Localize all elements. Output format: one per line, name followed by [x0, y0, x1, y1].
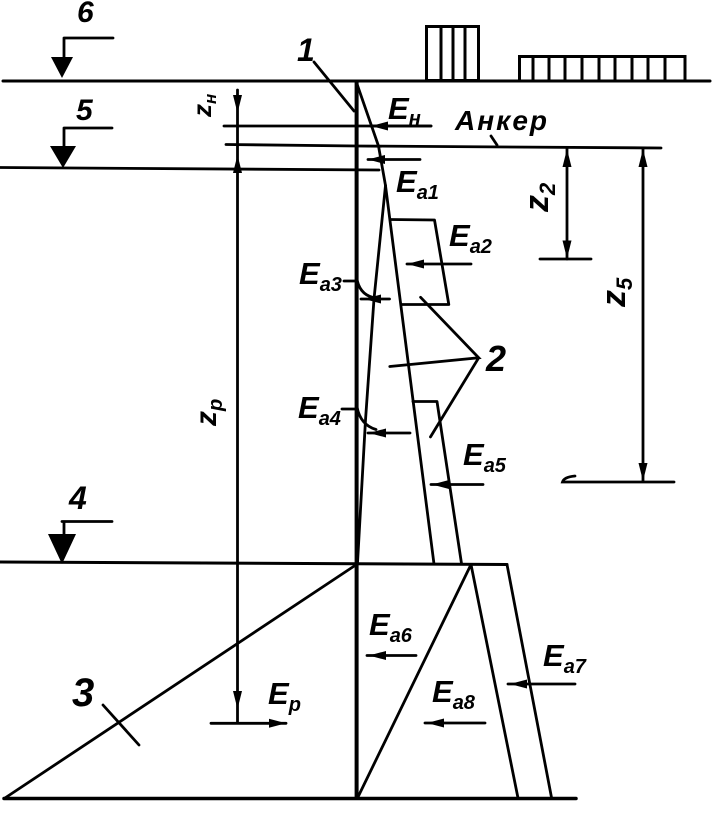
groundwater line (level 5): [0, 168, 379, 171]
svg-text:Eа2: Eа2: [449, 218, 492, 258]
dimension line z_5: [642, 148, 645, 482]
E_n arrow line: [371, 125, 431, 128]
svg-text:z2: z2: [518, 182, 560, 213]
leader tick for label 3: [103, 705, 139, 745]
svg-text:Eа6: Eа6: [369, 607, 413, 647]
pressure boundary L3 (apex down-right): [386, 186, 435, 565]
svg-text:1: 1: [297, 32, 315, 68]
E_a5 step polygon: [413, 402, 462, 564]
svg-text:zр: zр: [190, 399, 227, 427]
svg-text:zн: zн: [187, 94, 220, 118]
leader for anker: [491, 136, 497, 145]
svg-text:4: 4: [68, 480, 87, 516]
leaders for label 2: [390, 297, 479, 437]
ground surface line (level 6): [3, 80, 710, 83]
E_a7 band right edge: [507, 565, 552, 798]
anchor rod line: [226, 145, 661, 149]
svg-text:2: 2: [485, 338, 506, 379]
dim arrowheads x=237.5: [233, 95, 242, 113]
pressure boundary L2 (apex down-left to wall): [358, 186, 386, 564]
svg-text:Eа3: Eа3: [299, 256, 342, 296]
arrowheads horizontal left-pointing: [371, 122, 388, 131]
pressure boundary L1 (wall top to apex): [357, 84, 386, 186]
level symbol 6: [64, 38, 113, 59]
E_a5 arrow line: [431, 483, 483, 486]
E_a8 arrow line: [425, 722, 485, 725]
z_5 bottom tick with hook: [563, 476, 675, 482]
wall (sheet pile): [355, 82, 359, 798]
svg-text:Eа1: Eа1: [396, 164, 439, 204]
building block left (hatched): [427, 27, 479, 81]
svg-text:Eа8: Eа8: [432, 674, 476, 714]
svg-text:Eа5: Eа5: [463, 437, 507, 477]
line A (z_n extension / E_n arrow line): [224, 125, 431, 128]
E_a8 hypotenuse: [358, 565, 472, 799]
E_a4 leader arc: [342, 407, 410, 433]
E_a7 band left edge: [471, 565, 518, 799]
E_a3 leader arc: [344, 277, 390, 299]
E_a6 arrow line: [367, 654, 416, 657]
z_2 bottom tick: [540, 258, 591, 261]
dimension line z_2: [566, 148, 569, 259]
svg-text:6: 6: [77, 0, 94, 29]
svg-text:Eа4: Eа4: [298, 390, 341, 430]
dimension line z_n / z_p vertical: [236, 90, 239, 722]
level triangle 5: [50, 146, 76, 168]
level symbol 5: [64, 128, 112, 147]
svg-text:Анкер: Анкер: [454, 105, 549, 136]
passive pressure diagonal (3): [5, 565, 357, 799]
leader for label 1: [314, 62, 354, 111]
excavation line (level 4): [0, 562, 507, 565]
E_p arrow line: [211, 722, 286, 725]
dim arrowheads z_5: [639, 149, 648, 167]
level triangle 6: [51, 57, 73, 78]
dim arrowheads z_2: [563, 149, 572, 167]
svg-text:5: 5: [76, 94, 94, 127]
level triangle 4: [48, 534, 76, 564]
svg-text:Eн: Eн: [388, 91, 421, 130]
level symbol 4: [62, 522, 112, 537]
E_a2 arrow line: [407, 263, 471, 266]
E_a1 arrow line: [368, 158, 420, 161]
bottom line of wall: [4, 797, 576, 801]
svg-text:Eа7: Eа7: [543, 638, 587, 678]
svg-text:Eр: Eр: [268, 676, 301, 716]
E_a7 arrow line: [508, 683, 575, 686]
E_a2 step polygon: [390, 220, 449, 305]
E_p arrowhead right-pointing: [269, 719, 286, 728]
svg-text:3: 3: [72, 671, 94, 715]
building block right (hatched): [520, 57, 686, 82]
svg-text:z5: z5: [595, 277, 637, 308]
